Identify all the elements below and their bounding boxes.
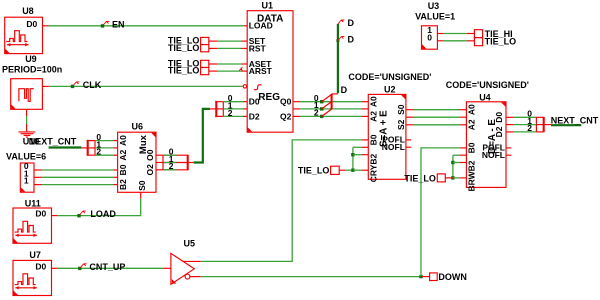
U4 D ripper left rail [535,117,537,132]
U2 pin B0 stub [362,139,368,141]
svg-text:D0: D0 [35,261,46,271]
bus flag D lower [338,37,344,41]
U4 D ripper tap to bus [544,124,551,126]
D ripper rung bit1 [215,108,223,110]
wire EN (U8.D0 to U1.LOAD) [49,25,244,27]
U6 A pin bit0 stub [114,140,118,142]
register U1 body [247,11,293,133]
svg-text:A2: A2 [368,111,378,122]
bus U6.O to U1.D [194,109,210,163]
U6 A pin bit1 stub [114,147,118,149]
U1 pin Q bit1 stub [293,108,300,110]
LOAD label flag [80,211,86,215]
wire U5 inv out to DOWN [201,276,421,278]
U4 D ripper rung bit2 [536,131,543,133]
svg-text:S0: S0 [137,180,147,191]
U6 A ripper rung bit1 [87,147,95,149]
U2 A pin bit2 stub [362,115,368,117]
wire U5 out to U2.B0 [201,140,362,262]
svg-text:2: 2 [228,108,233,118]
U5 inverted output bubble [185,274,190,279]
svg-text:2: 2 [527,123,532,133]
wire U10 to U6.B bit0 [42,169,113,171]
svg-text:O0: O0 [145,149,155,161]
port TIE_HI square [474,30,482,38]
U9 output pin stub [42,85,49,87]
U10 pin bit2 stub [34,184,42,186]
wire tie to U2.B1 [353,146,362,148]
wire U2.S to U4.A bit2 [414,124,460,126]
U5 inverted output stub [190,276,201,278]
digital stimulus U11 [13,208,52,243]
svg-text:NEXT_CNT: NEXT_CNT [551,115,599,125]
svg-text:ARST: ARST [249,66,273,76]
U1 clock pin bubble [243,85,246,88]
wire U10 to U6.B bit2 [42,184,113,186]
svg-text:EN: EN [112,19,125,29]
svg-text:TIE_LO: TIE_LO [168,43,200,53]
U1 pin D bit0 stub [243,101,247,103]
U2 B2 junction dot [351,153,354,156]
U1 clock pin marker [254,85,262,90]
U4 B2 junction dot [451,161,454,164]
wire U3 to TIE_HI [437,33,443,35]
U1 pin Q bit2 stub [293,115,300,117]
U2 POFL stub [406,139,411,141]
wire D bit2 [223,115,243,117]
constant U3 body [422,26,438,49]
svg-text:LOAD: LOAD [249,21,273,31]
Q ripper junction dot bit1 [320,107,323,110]
U6 A ripper rung bit2 [87,154,95,156]
Q ripper tap to bus [332,93,338,95]
svg-text:U11: U11 [25,198,41,208]
svg-text:S2: S2 [396,119,406,130]
U4 D ripper vertical [543,117,545,132]
svg-text:DOWN: DOWN [438,272,467,282]
port TIE_LO (U4) stub [445,177,453,179]
wire D bit1 [223,108,243,110]
svg-text:TIE_LO: TIE_LO [404,173,436,183]
Q ripper diagonal bit0 [322,94,332,101]
svg-text:PERIOD=100n: PERIOD=100n [2,65,62,75]
svg-text:U7: U7 [29,250,41,260]
U6 O ripper left rail [162,155,164,170]
Q ripper diagonal bit2 [322,109,332,116]
U2 S pin bit1 stub [406,116,414,118]
svg-text:A2: A2 [467,119,477,130]
U4 D pin bit2 stub [506,131,514,133]
bus D vertical [337,24,339,93]
svg-text:S0: S0 [396,104,406,115]
wire tie to U2.CRYB2 [353,169,362,171]
wire tie to U4.B2 [453,162,460,164]
D bus ripper tap to bus [210,108,216,110]
D bus ripper vertical [215,101,217,117]
wire U6 O bit0 [163,154,177,156]
U2 NOFL stub [406,146,411,148]
bus flag D lower attach dot [336,39,339,42]
U6 O ripper rung bit2 [163,169,188,171]
U2 S pin bit2 stub [406,124,414,126]
U7 pin D0 stub [52,267,58,269]
D bus ripper right rail [222,102,224,117]
svg-text:U2: U2 [384,85,396,95]
wire U6 A bit1 [95,147,114,149]
svg-text:REG: REG [258,92,280,103]
U1 pin LOAD stub [243,25,247,27]
U1 pin ARST stub [243,70,247,72]
ground GND_EARTH [26,124,28,131]
wire U2.S to U4.A bit0 [414,109,460,111]
svg-text:U9: U9 [25,54,37,64]
mux U6 body [118,132,156,192]
U10 pin bit1 stub [34,176,42,178]
svg-text:U10: U10 [23,137,40,147]
U2 A pin bit0 stub [362,101,368,103]
svg-text:CRYB2: CRYB2 [368,153,378,182]
U1 pin SET stub [243,40,247,42]
U4 NOFL stub [506,154,511,156]
wire U4 D bit0 [514,116,537,118]
EN label flag [103,21,109,25]
U1 pin D bit1 stub [243,108,247,110]
port TIE_LO (SET) square [201,37,209,44]
U6 O ripper tap to bus [188,162,194,164]
bus flag D upper [338,20,344,24]
U5 true output stub [183,260,201,262]
U10 pin bit0 stub [34,169,42,171]
wire U6 A bit0 [95,140,114,142]
svg-text:D0: D0 [494,112,504,123]
svg-text:NOFL: NOFL [382,142,405,152]
svg-text:CODE='UNSIGNED': CODE='UNSIGNED' [446,80,529,90]
CLK label attach dot [71,85,74,88]
U6 A ripper rung bit0 [87,140,95,142]
U4 POFL stub [506,147,511,149]
U6 A ripper tap to bus [81,147,87,149]
port TIE_LO (U4) square [437,174,445,182]
adder U2 body [368,94,406,179]
svg-text:1: 1 [24,176,29,186]
svg-text:D: D [341,85,348,95]
svg-text:0: 0 [427,32,432,42]
svg-text:NOFL: NOFL [482,150,505,160]
buffer U5 body [171,253,194,284]
wire U9 to ground [26,116,28,124]
svg-text:D0: D0 [249,97,260,107]
DOWN port stub [421,276,430,278]
U8 pin D0 stub [43,25,49,27]
svg-text:RST: RST [249,43,267,53]
U6 B pin bit2 stub [114,184,118,186]
port TIE_LO (RST) square [201,45,209,52]
U5 input stub [164,267,171,269]
CNT_UP label attach dot [78,267,81,270]
wire Q bit2 to U2.A [300,115,362,117]
svg-text:U4: U4 [479,92,491,102]
wire DOWN to U4.B0 [421,148,460,277]
wire U4 D bit1 [514,124,537,126]
wire U6 O bit2 [163,169,177,171]
digital stimulus U8 [5,17,43,53]
svg-text:U1: U1 [262,1,274,11]
U4 A pin bit1 stub [460,116,467,118]
wire Q bit1 to U2.A [300,108,362,110]
svg-text:A0: A0 [368,96,378,107]
wire TIE_LO to ASET [209,63,218,65]
wire U4 D bit2 [514,131,537,133]
svg-text:VALUE=1: VALUE=1 [415,11,455,21]
wire CLK (U9 to U1.CLK) [49,85,243,87]
wire tie to U4.B1 [453,154,460,156]
U4 tie vertical wire [452,155,454,178]
wire TIE_LO to ARST [209,70,218,72]
wire tie to U2.B2 [353,154,362,156]
U6 A pin bit2 stub [114,154,118,156]
U1 pin ASET stub [243,63,247,65]
Q ripper vertical [331,94,333,110]
port TIE_LO (ASET) square [201,60,209,67]
DOWN junction dot [419,275,422,278]
svg-text:B0: B0 [368,134,378,145]
U2 tie vertical wire [352,147,354,170]
U6 O pin bit0 stub [156,154,163,156]
U11 pin D0 stub [52,215,58,217]
port DOWN square [430,273,438,281]
U4 BRW junction dot [451,176,454,179]
svg-text:TIE_LO: TIE_LO [298,165,330,175]
U6 O pin bit2 stub [156,169,163,171]
svg-text:D2: D2 [494,126,504,137]
wire TIE_LO to RST [209,47,218,49]
U6 O ripper rung bit1 [163,162,188,164]
svg-text:TIE_LO: TIE_LO [485,36,517,46]
svg-text:U3: U3 [428,1,440,11]
svg-text:D0: D0 [26,19,37,29]
digital clock U9 [11,79,43,110]
U6 pin S0 stub [140,192,142,198]
U1 pin RST stub [243,47,247,49]
U6 A ripper vertical [87,140,89,156]
svg-text:LOAD: LOAD [90,209,116,219]
svg-text:BRWB2: BRWB2 [467,160,477,191]
svg-text:D: D [348,18,355,28]
U6 O ripper vertical [187,155,189,171]
svg-text:TIE_LO: TIE_LO [168,66,200,76]
wire U6 A bit2 [95,154,114,156]
wire S0 to U11 (LOAD net) [57,199,140,216]
svg-text:O2: O2 [145,164,155,176]
wire D bit0 [223,101,243,103]
U1 pin Q bit0 stub [293,101,300,103]
svg-text:D0: D0 [35,209,46,219]
D ripper rung bit0 [215,101,223,103]
svg-text:D: D [348,35,355,45]
svg-text:A0: A0 [118,135,128,146]
svg-text:D2: D2 [249,111,260,121]
U4 D ripper rung bit1 [536,124,543,126]
U4 D pin bit1 stub [506,124,514,126]
wire TIE_LO to SET [209,40,218,42]
bus stub NEXT_CNT (left) [49,146,82,148]
U4 D pin bit0 stub [506,116,514,118]
svg-text:CNT_UP: CNT_UP [89,262,125,272]
U4 A pin bit0 stub [460,109,467,111]
U4 pin B0 stub [460,147,466,149]
digital stimulus U7 [13,260,52,295]
Q ripper diagonal bit1 [322,102,332,109]
wire U10 to U6.B bit1 [42,176,113,178]
wire Q bit0 to U2.A [300,101,362,103]
U6 O pin bit1 stub [156,162,163,164]
svg-text:B0: B0 [467,142,477,153]
svg-text:U5: U5 [184,238,196,248]
D ripper rung bit2 [215,115,223,117]
svg-text:A0: A0 [467,104,477,115]
svg-text:B0: B0 [118,164,128,175]
U2 CRY junction dot [351,169,354,172]
wire tie to U4.BRWB2 [453,177,460,179]
svg-text:U6: U6 [132,122,144,132]
svg-text:2: 2 [96,147,101,157]
ARST wire marker [239,68,242,71]
Q ripper junction dot bit2 [320,115,323,118]
svg-text:2: 2 [314,108,319,118]
U4 A pin bit2 stub [460,124,467,126]
U4 D ripper rung bit0 [536,116,543,118]
CLK label flag [73,82,79,86]
U6 B pin bit0 stub [114,169,118,171]
U6 O ripper rung bit0 [163,154,188,156]
port TIE_LO (U2) stub [339,169,346,171]
svg-text:Q2: Q2 [280,111,292,121]
U1 pin D bit2 stub [243,115,247,117]
Q ripper junction dot bit0 [320,100,323,103]
wire U2.S to U4.A bit1 [414,116,460,118]
bus stub NEXT_CNT (right) [551,124,581,126]
U9 ground pin stub [26,109,28,116]
port TIE_LO (U2) square [331,166,340,174]
LOAD label attach dot [77,214,80,217]
svg-text:A2: A2 [118,149,128,160]
svg-text:U8: U8 [22,6,34,16]
U2 A pin bit1 stub [362,108,368,110]
U6 A ripper right rail [94,141,96,156]
svg-text:2: 2 [169,161,174,171]
wire CNT_UP (U7 to U5) [57,267,164,269]
port TIE_LO (top) square [474,38,482,46]
svg-text:B2: B2 [118,179,128,190]
port TIE_LO (ARST) square [201,68,209,75]
svg-text:CODE='UNSIGNED': CODE='UNSIGNED' [348,72,431,82]
U2 S pin bit0 stub [406,109,414,111]
constant U10 body [20,163,34,192]
svg-text:CLK: CLK [83,80,102,90]
EN label attach dot [101,24,104,27]
wire U6 O bit1 [163,162,177,164]
U6 B pin bit1 stub [114,176,118,178]
CNT_UP label flag [80,264,86,268]
subtractor U4 body [466,102,506,188]
svg-text:Q0: Q0 [280,97,292,107]
wire U3 to TIE_LO [437,40,443,42]
